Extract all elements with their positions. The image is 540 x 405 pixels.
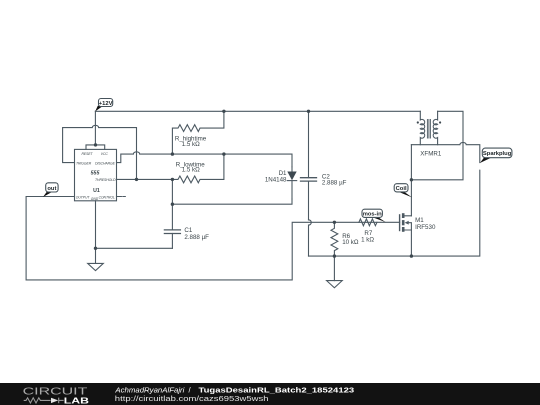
svg-text:CONTROL: CONTROL — [99, 195, 115, 199]
svg-text:+12V: +12V — [99, 101, 113, 107]
svg-text:2.888 µF: 2.888 µF — [322, 180, 347, 187]
node source bottom — [410, 254, 413, 257]
svg-text:DISCHARGE: DISCHARGE — [95, 161, 115, 165]
transformer phase dot primary — [417, 121, 419, 123]
svg-text:mos-in: mos-in — [363, 212, 382, 218]
label D1 — [265, 170, 287, 184]
svg-text:TRIGGER: TRIGGER — [76, 161, 92, 165]
svg-text:GND: GND — [91, 197, 99, 201]
svg-text:1.5 kΩ: 1.5 kΩ — [182, 141, 200, 148]
footer title line — [114, 386, 354, 395]
wire ground bus under U1 — [96, 201, 173, 249]
capacitor C1 — [164, 230, 180, 248]
wire threshold node down to D1/C1 node — [171, 179, 173, 229]
svg-text:2.888 µF: 2.888 µF — [184, 234, 209, 241]
transformer phase dot secondary — [439, 121, 441, 123]
wire mosfet source down — [410, 230, 412, 256]
label R_hightime — [175, 136, 207, 148]
wire DISCHARGE jog and discharge line — [117, 152, 293, 167]
transformer XFMR1 core — [427, 120, 430, 139]
svg-text:M1: M1 — [415, 217, 424, 224]
ground symbol GND2 stem — [327, 256, 343, 288]
svg-text:RESET: RESET — [82, 152, 94, 156]
node threshold branch — [171, 178, 174, 181]
label XFMR1 — [420, 151, 442, 158]
resistor R6 — [331, 222, 338, 256]
ground symbol GND1 — [88, 248, 104, 270]
node discharge R_lowtime — [222, 152, 225, 155]
flag +12V — [95, 99, 113, 112]
svg-text:U1: U1 — [93, 188, 100, 194]
svg-text:OUTPUT: OUTPUT — [76, 195, 91, 199]
node rail bottom R6 — [333, 254, 336, 257]
svg-text:Sparkplug: Sparkplug — [483, 151, 512, 157]
resistor R7 — [359, 219, 377, 226]
footer logo zigzag and diode — [24, 398, 64, 404]
flag Coil — [394, 184, 412, 198]
svg-text:1N4148: 1N4148 — [265, 177, 287, 184]
node gate R6 — [333, 221, 336, 224]
wire drain node vertical — [410, 145, 412, 216]
label C1 — [184, 227, 209, 241]
footer bar — [0, 383, 540, 405]
mosfet M1 — [400, 213, 412, 232]
wire threshold line — [117, 178, 173, 180]
wire D1 cathode horizontal — [172, 199, 292, 204]
svg-text:THRESHOLD: THRESHOLD — [95, 178, 116, 182]
svg-text:C1: C1 — [184, 227, 192, 234]
resistor R_hightime — [172, 111, 224, 154]
U1 pin labels — [76, 152, 116, 201]
flag out — [43, 183, 58, 197]
svg-text:VCC: VCC — [101, 152, 109, 156]
wire transformer bottom with hop, to sparkplug — [411, 142, 479, 162]
svg-text:http://circuitlab.com/cazs6953: http://circuitlab.com/cazs6953w5wsh — [115, 394, 269, 403]
wire C2 bottom with hop over gate line — [309, 220, 312, 256]
op-amp U1 555 box — [75, 149, 117, 200]
node rail R_hightime — [222, 110, 225, 113]
svg-text:555: 555 — [91, 171, 100, 177]
flag Sparkplug — [480, 148, 512, 163]
node discharge R_hightime — [171, 152, 174, 155]
node trigger threshold — [135, 178, 138, 181]
node U1 supply bracket — [94, 143, 97, 146]
capacitor C2 — [301, 111, 317, 220]
label M1 — [415, 217, 436, 231]
svg-text:Coil: Coil — [396, 186, 407, 192]
node C1 D1 — [171, 203, 174, 206]
flag mos-in — [362, 209, 386, 222]
svg-text:LAB: LAB — [64, 396, 90, 405]
wire +12V drop to U1 supply bracket — [94, 111, 96, 145]
wire +12V rail — [95, 110, 420, 112]
diode D1 — [287, 167, 296, 199]
svg-text:1 kΩ: 1 kΩ — [361, 237, 374, 244]
label R6 — [342, 233, 359, 246]
wire bottom rail (source node) — [309, 170, 480, 256]
svg-text:out: out — [47, 186, 56, 192]
label C2 — [322, 173, 347, 186]
node gnd bus — [94, 247, 97, 250]
resistor R_lowtime — [172, 154, 224, 183]
transformer XFMR1 primary winding — [420, 111, 424, 144]
label R7 — [361, 230, 374, 244]
svg-text:XFMR1: XFMR1 — [420, 151, 442, 158]
wire secondary-top to drain node — [411, 111, 463, 180]
node drain transformer — [410, 178, 413, 181]
svg-text:IRF530: IRF530 — [415, 224, 436, 231]
wire OUTPUT loop to gate line — [26, 197, 400, 280]
wire CONTROL stub — [117, 196, 126, 198]
transformer XFMR1 secondary winding — [433, 111, 437, 144]
label R_lowtime — [176, 161, 205, 173]
svg-text:10 kΩ: 10 kΩ — [342, 239, 359, 246]
node rail C2 — [307, 110, 310, 113]
wire TRIGGER loop — [63, 125, 137, 179]
svg-text:1.5 kΩ: 1.5 kΩ — [182, 166, 200, 173]
wire U1 RESET/VCC top bracket — [86, 145, 105, 150]
